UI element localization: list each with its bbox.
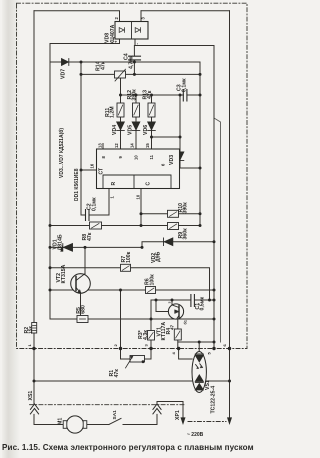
diode VD4 (117, 122, 125, 131)
wire: VT1 emitter/C1 row y=300 (C1 gap) (151, 299, 214, 301)
wire: parallel scan line x=220.5 (214, 118, 221, 342)
wire: top mains segment right (141, 10, 230, 12)
svg-text:VD6: VD6 (143, 125, 149, 135)
resistor R12 (133, 103, 140, 117)
svg-text:VD7: VD7 (61, 69, 67, 79)
svg-text:47к: 47к (147, 90, 153, 99)
svg-text:КТ315А: КТ315А (61, 264, 67, 283)
wire: VS1 right to mains drop (206, 380, 229, 382)
wire: VD8 pins to mains (120, 11, 142, 46)
svg-text:47: 47 (169, 324, 174, 330)
diode VD2 (164, 238, 173, 246)
wire: x=120.5 drop (terminal 2) (120, 290, 122, 349)
wire: VT2 emitter lead down to R5 (80, 293, 82, 315)
drill enclosure boundary (dash-dot) (30, 404, 185, 406)
resistor R5 (77, 316, 88, 323)
wire: R6/VT2-base row y=290 (50, 289, 214, 291)
svg-text:0,5мк: 0,5мк (200, 296, 206, 310)
wire: IC bottom pin10 drop x=141 (140, 189, 142, 226)
svg-text:VD4: VD4 (112, 125, 118, 135)
resistor R2 (32, 323, 37, 334)
diode VD3 (176, 152, 184, 161)
diode VD5 (132, 122, 140, 131)
wire: VS1 top lead (198, 342, 200, 352)
svg-text:390к: 390к (132, 89, 138, 101)
svg-text:4,3к: 4,3к (143, 330, 149, 340)
diode VD1 (zener) (61, 244, 73, 252)
wire: R14 wiper tap (120, 78, 122, 95)
svg-text:15к: 15к (28, 326, 34, 334)
transistor VT1 KT117A (unijunction) (168, 304, 183, 319)
wire: R1 pot leads below boundary (121, 349, 152, 360)
svg-text:100к: 100к (126, 251, 132, 263)
wire: XP1 right pin drop (229, 381, 231, 423)
wire: switch to XS1 right contact riser (123, 402, 183, 425)
svg-text:М1: М1 (58, 418, 64, 425)
svg-text:~ 220В: ~ 220В (187, 432, 204, 438)
wire: VS1 anode row y=342 (178, 341, 214, 343)
diode VD6 (148, 122, 156, 131)
wire: - supply rail y=45.5 with corner into rail x=214 (135, 46, 214, 349)
svg-text:VD3...VD7 КД521А(б): VD3...VD7 КД521А(б) (58, 128, 65, 178)
svg-text:VD3: VD3 (169, 155, 175, 165)
resistor R4 (174, 329, 181, 340)
wire: C4 leads x=134.4 (133, 46, 135, 75)
wire: VS1 gate from terminal 4 (179, 349, 193, 360)
resistor R6 (146, 287, 156, 294)
wire: counter output row y=137 (152, 136, 181, 138)
junction dots (80, 61, 83, 64)
svg-text:360к: 360к (182, 228, 188, 240)
resistor R10 (168, 210, 179, 217)
svg-text:47к: 47к (100, 61, 106, 70)
svg-text:XS1: XS1 (28, 391, 34, 401)
wire: left mains drop x=34 (through R2, XS1 to motor) (34, 11, 64, 425)
resistor R7 (121, 264, 131, 271)
resistor R11 (117, 103, 124, 117)
IC pin numbers top (90, 143, 166, 200)
transistor VT2 KT315A (71, 274, 91, 294)
wire: VT1 emitter feed (156, 300, 169, 312)
mains socket boundary (dash-dot) (188, 421, 226, 423)
wire: switch blade SA1 (109, 418, 121, 424)
svg-text:С: С (146, 182, 152, 186)
svg-text:10: 10 (134, 155, 139, 160)
wire: motor to switch segment (87, 424, 110, 426)
svg-text:SA1: SA1 (112, 410, 118, 420)
svg-text:680: 680 (81, 305, 87, 314)
wire: VD1/VD2 row y=246 (50, 242, 214, 248)
svg-text:Д9Б: Д9Б (155, 251, 161, 262)
capacitor C3 (183, 90, 187, 102)
svg-text:DD1 К561ИЕ8: DD1 К561ИЕ8 (74, 168, 80, 201)
svg-text:R: R (111, 182, 117, 186)
wire: divider feed row y=95 (C3 gap) (121, 94, 201, 96)
motor M1 (63, 416, 87, 433)
resistor R9 (168, 223, 179, 230)
wire: diode column stubs into IC (121, 95, 152, 149)
dash-dot enclosure frame of regulator unit (17, 3, 248, 348)
wire: VT2 collector lead up to y=246 (84, 247, 86, 273)
wire: R8/R9 row y=225.5 (50, 225, 200, 227)
svg-text:СТ: СТ (99, 168, 105, 175)
wire: right mains drop x=229.5 (229, 11, 231, 381)
svg-text:10: 10 (136, 194, 141, 199)
wire: R10 row y=212.5 (141, 213, 200, 215)
wire: IC pin16 stub (81, 169, 97, 171)
svg-text:16: 16 (90, 163, 95, 168)
resistor R14 (trimmer) (115, 69, 126, 81)
svg-text:б1: б1 (184, 320, 188, 324)
svg-text:47к: 47к (114, 369, 120, 378)
wire: VD7 row y=62 into rail x=200 (50, 62, 200, 226)
svg-text:12: 12 (114, 143, 119, 148)
resistor R13 (148, 103, 155, 117)
wire: x=81 drop (VD7 node to C2) (81, 62, 85, 215)
diode VD7 (62, 59, 69, 66)
svg-text:1,2М: 1,2М (110, 106, 116, 118)
capacitor C2 (86, 210, 90, 221)
wire: common return y=381 left of VS1 (34, 380, 192, 382)
connector XS1 contact left (30, 404, 38, 414)
capacitor C4 (129, 56, 141, 60)
wire: VT1 base2 lead (171, 300, 173, 305)
plug XP1 pin left (181, 418, 185, 424)
wire: R3 branch x=151 (150, 300, 152, 349)
wire: IC pin13 stub (102, 144, 104, 150)
svg-text:13: 13 (98, 143, 103, 148)
wire: + supply rail y=43.5 (50, 43, 120, 45)
wire: R14 row y=74.4 (81, 73, 200, 75)
svg-text:100к: 100к (149, 274, 155, 286)
svg-text:4,7мк: 4,7мк (128, 55, 134, 69)
svg-text:VD5: VD5 (128, 125, 134, 135)
wire: IC pin6 row y=168 (180, 167, 201, 169)
svg-text:ТС122-25-4: ТС122-25-4 (210, 386, 216, 414)
IC DD1 K561IE8 counter (97, 149, 180, 189)
svg-text:14: 14 (130, 143, 135, 148)
triac VS1 TC122-25-4 (192, 352, 206, 393)
wire: VD3 branch x=180 (179, 95, 181, 168)
svg-text:11: 11 (149, 154, 154, 159)
resistor R3* (148, 331, 155, 341)
potentiometer R1 (126, 356, 145, 369)
svg-text:47к: 47к (87, 232, 93, 241)
wire: left inner rail x=50 with bottom corner into y=319 (50, 44, 214, 320)
svg-text:15: 15 (145, 143, 150, 148)
resistor R8 (90, 222, 102, 229)
capacitor C1 (191, 295, 195, 307)
wire: R7 row y=266 with corner down to C1 node (50, 268, 210, 300)
svg-text:390к: 390к (182, 202, 188, 214)
terminal numbers (27, 344, 227, 355)
svg-text:0,1мк: 0,1мк (91, 197, 97, 211)
svg-text:XP1: XP1 (175, 410, 181, 420)
connector XS1 contact right (153, 404, 161, 414)
plug XP1 pin right (228, 418, 232, 424)
wire: C2 right lead to IC pin (89, 189, 109, 216)
svg-text:0,1мк: 0,1мк (181, 78, 187, 92)
wire: VT1 base1/R4 drop x=177 (177, 318, 179, 348)
terminal dots on enclosure boundary (32, 347, 35, 350)
svg-text:з: з (168, 302, 172, 304)
pin marks of VT1 (168, 302, 188, 325)
rectifier bridge VD8 (115, 22, 148, 40)
svg-text:Д814Б: Д814Б (57, 234, 63, 250)
pin marks of VD8 (114, 17, 146, 45)
wire: top mains segment left (34, 10, 119, 12)
